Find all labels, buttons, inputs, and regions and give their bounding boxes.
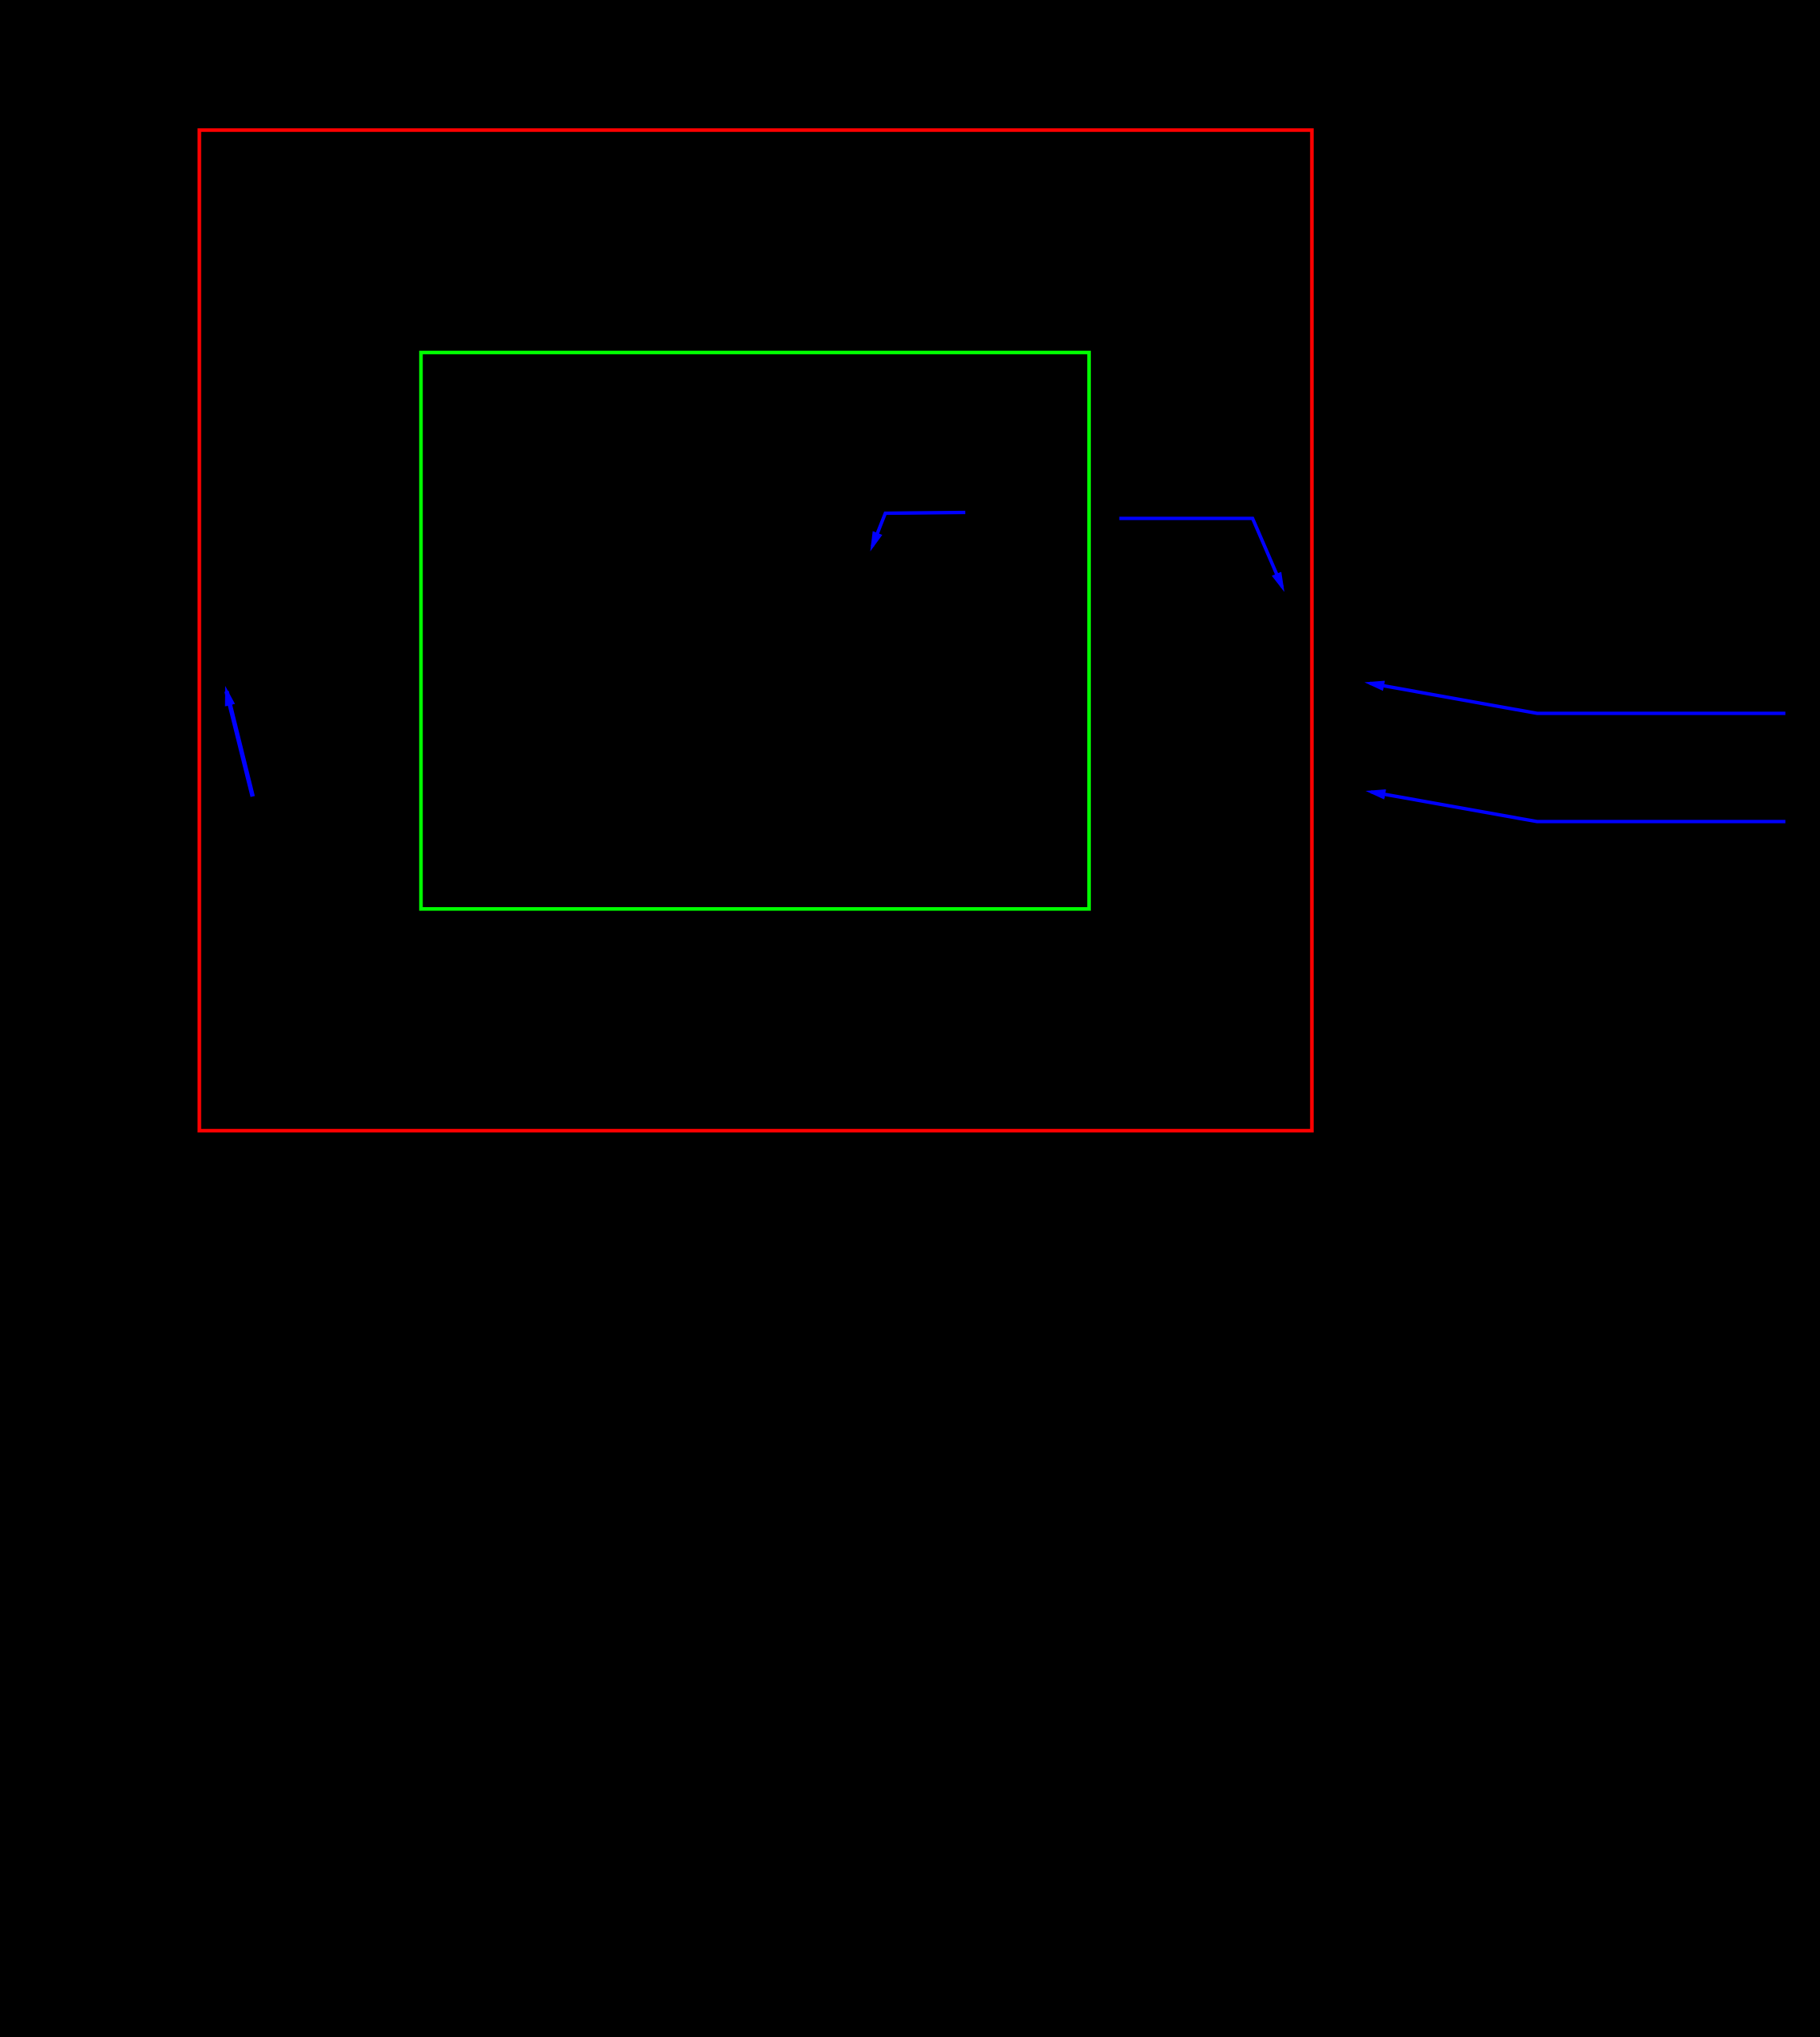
outer red rectangle [200, 130, 1312, 1131]
lower right blue arrow (points up-left toward red edge) [1371, 792, 1786, 821]
blue arrow from green box to red right edge (points down-right) [1120, 519, 1283, 587]
inner green rectangle [421, 352, 1089, 909]
blue arrow inside green box (points down-left) [872, 512, 965, 547]
blue arrow at left edge of red box (points up-left) [227, 691, 253, 796]
upper right blue arrow (points up-left toward red edge) [1370, 684, 1785, 714]
